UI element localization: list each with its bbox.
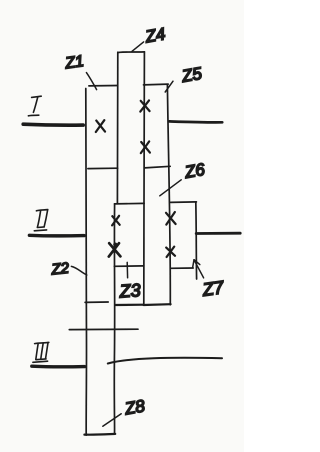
gear Z4 top edge <box>118 51 144 54</box>
gear Z4 / Z5 boundary vertical line <box>143 52 146 305</box>
fixed-mount X mark on Z6 lower <box>166 247 175 257</box>
label Z4 <box>132 24 167 51</box>
gear Z3 bottom edge <box>115 304 143 306</box>
svg-text:Z7: Z7 <box>200 277 226 300</box>
shaft I left thick segment <box>23 122 83 127</box>
shaft II left thick segment <box>29 234 84 238</box>
gear Z7 top edge <box>171 201 197 204</box>
svg-text:Z5: Z5 <box>179 64 203 86</box>
svg-text:Z2: Z2 <box>50 260 71 279</box>
gear Z3 internal line <box>114 265 144 267</box>
gear Z4 block left edge <box>116 52 118 203</box>
gear Z1 bottom edge <box>88 167 118 169</box>
label Z3 with tick pointer <box>118 262 141 301</box>
left vertical shaft line (gear Z2 line) <box>85 89 88 436</box>
gear Z3 block left edge and lower shaft line <box>113 204 115 434</box>
label Z6 <box>160 160 207 196</box>
gear Z8 top crossing line <box>69 328 138 330</box>
shaft II right thick segment <box>196 232 240 235</box>
bearing tick on lower shaft <box>85 301 108 303</box>
gear Z7 right edge <box>195 202 198 279</box>
label Z8 with pointer <box>103 396 147 426</box>
shaft II label II <box>34 210 48 231</box>
lower shaft bottom edge <box>84 433 115 436</box>
fixed-mount X mark on Z1 <box>96 120 105 132</box>
gear Z5 bottom edge (Z6 top) <box>145 166 171 168</box>
gear Z5 right edge vertical line <box>167 84 170 304</box>
right column bottom edge <box>144 303 171 306</box>
gear Z1 top edge <box>89 85 118 87</box>
gear Z7 bottom edge <box>171 267 193 269</box>
label Z5 <box>165 64 204 92</box>
fixed-mount X mark on Z3 upper <box>112 216 120 226</box>
svg-text:Z3: Z3 <box>118 280 141 301</box>
svg-text:Z1: Z1 <box>63 53 85 73</box>
fixed-mount X mark on Z4 lower <box>141 141 150 153</box>
shaft III right segment <box>108 358 222 364</box>
svg-text:Z8: Z8 <box>122 396 146 418</box>
gear Z4 bottom edge <box>115 202 145 205</box>
fixed-mount X mark on Z4 upper <box>140 100 149 111</box>
svg-text:Z4: Z4 <box>143 24 167 46</box>
gear Z5 top edge <box>144 83 169 86</box>
shaft I right thick segment <box>169 120 222 124</box>
fixed-mount X mark on Z6 upper <box>166 212 176 225</box>
shaft III left thick segment <box>32 365 85 369</box>
label Z2 with squiggle pointer <box>50 260 87 279</box>
svg-text:Z6: Z6 <box>182 160 206 182</box>
fixed-mount X mark on Z3 lower (bold) <box>109 243 121 257</box>
label Z7 with arrow pointer <box>193 260 226 300</box>
shaft I label I <box>28 96 41 116</box>
label Z1 <box>63 53 96 90</box>
shaft III label III <box>33 342 49 362</box>
